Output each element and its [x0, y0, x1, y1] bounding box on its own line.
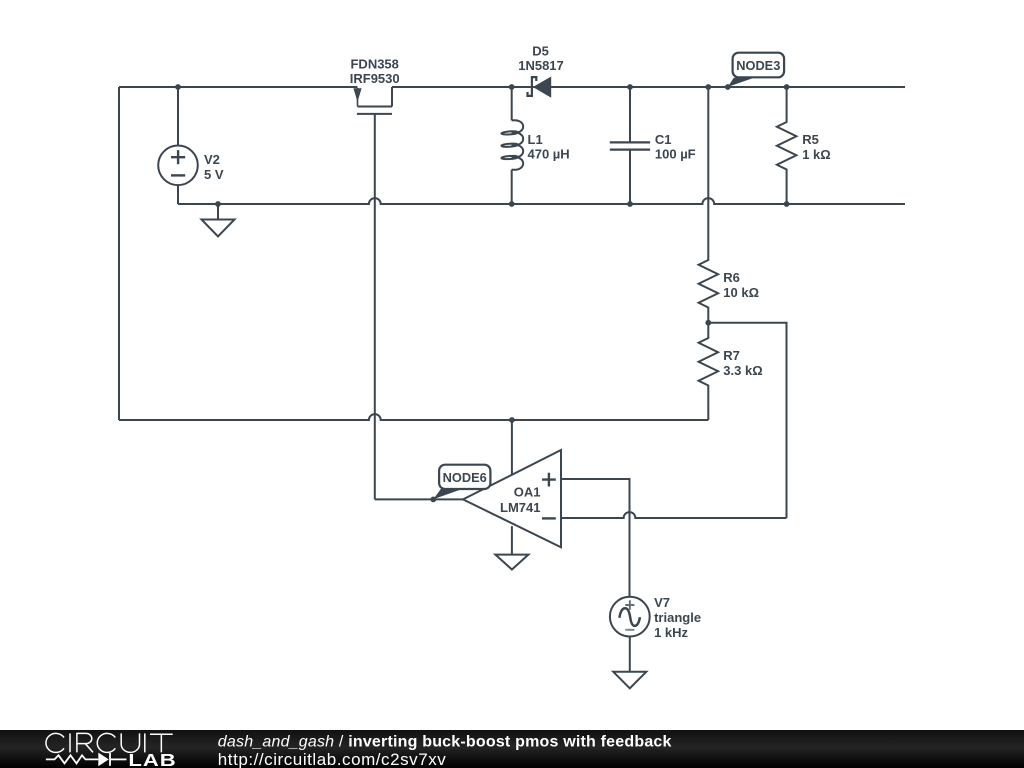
footer bar [0, 730, 1024, 768]
svg-text:FDN358: FDN358 [350, 56, 398, 71]
svg-text:triangle: triangle [654, 610, 701, 625]
svg-text:IRF9530: IRF9530 [350, 71, 400, 86]
ground under V7 [613, 637, 646, 689]
wire minus input with hop [561, 512, 787, 518]
wire top rail left [119, 86, 358, 88]
wire gate vertical [374, 114, 376, 500]
voltage source V7 (triangle 1 kHz) [610, 597, 650, 637]
capacitor C1 [610, 87, 650, 204]
svg-text:R7: R7 [723, 348, 740, 363]
ground under op-amp [495, 555, 528, 570]
svg-text:1 kHz: 1 kHz [654, 625, 688, 640]
transistor arrow [353, 88, 361, 102]
svg-text:L1: L1 [528, 132, 543, 147]
svg-text:NODE6: NODE6 [443, 470, 487, 485]
wire bottom rail (y=204) with hops [178, 198, 905, 204]
svg-text:http://circuitlab.com/c2sv7xv: http://circuitlab.com/c2sv7xv [218, 750, 447, 768]
wire feedback from R6/R7 junction [708, 323, 786, 518]
wire op-amp output to gate [375, 498, 463, 500]
svg-text:1N5817: 1N5817 [518, 58, 564, 73]
diode D5 1N5817 (schottky) [528, 77, 537, 96]
svg-text:V7: V7 [654, 595, 670, 610]
svg-text:R5: R5 [802, 132, 819, 147]
svg-text:5 V: 5 V [204, 167, 224, 182]
node NODE3 flag [728, 53, 784, 87]
logo squiggle resistor+diode [46, 753, 127, 766]
transistor Q1 PMOS FDN358/IRF9530 [357, 87, 392, 114]
op-amp OA1 LM741 [463, 420, 561, 555]
svg-text:LAB: LAB [128, 751, 176, 768]
svg-text:OA1: OA1 [514, 485, 541, 500]
wire top rail right [392, 86, 905, 88]
svg-text:3.3 kΩ: 3.3 kΩ [723, 363, 762, 378]
node NODE6 flag [433, 465, 490, 500]
svg-text:100 µF: 100 µF [655, 147, 696, 162]
voltage source V2 [158, 87, 198, 204]
svg-text:1 kΩ: 1 kΩ [802, 147, 831, 162]
ground near V2 [202, 204, 235, 237]
resistor R7 [699, 323, 719, 420]
wire plus input [561, 479, 630, 597]
resistor R5 [777, 87, 797, 204]
svg-text:LM741: LM741 [500, 500, 540, 515]
CircuitLab logo text CIRCUIT (hand-drawn thin letters) [46, 733, 173, 752]
svg-text:10 kΩ: 10 kΩ [723, 285, 759, 300]
svg-text:NODE3: NODE3 [736, 58, 780, 73]
svg-text:dash_and_gash / inverting buck: dash_and_gash / inverting buck-boost pmo… [218, 734, 672, 751]
wire left vertical [118, 87, 120, 420]
svg-text:470 µH: 470 µH [528, 147, 570, 162]
svg-text:D5: D5 [532, 43, 549, 58]
resistor R6 [699, 87, 719, 323]
svg-text:V2: V2 [204, 152, 220, 167]
svg-text:C1: C1 [655, 132, 672, 147]
svg-text:R6: R6 [723, 270, 740, 285]
inductor L1 [501, 87, 523, 204]
wire lower horizontal (y=420) with hop over gate wire [119, 414, 708, 420]
